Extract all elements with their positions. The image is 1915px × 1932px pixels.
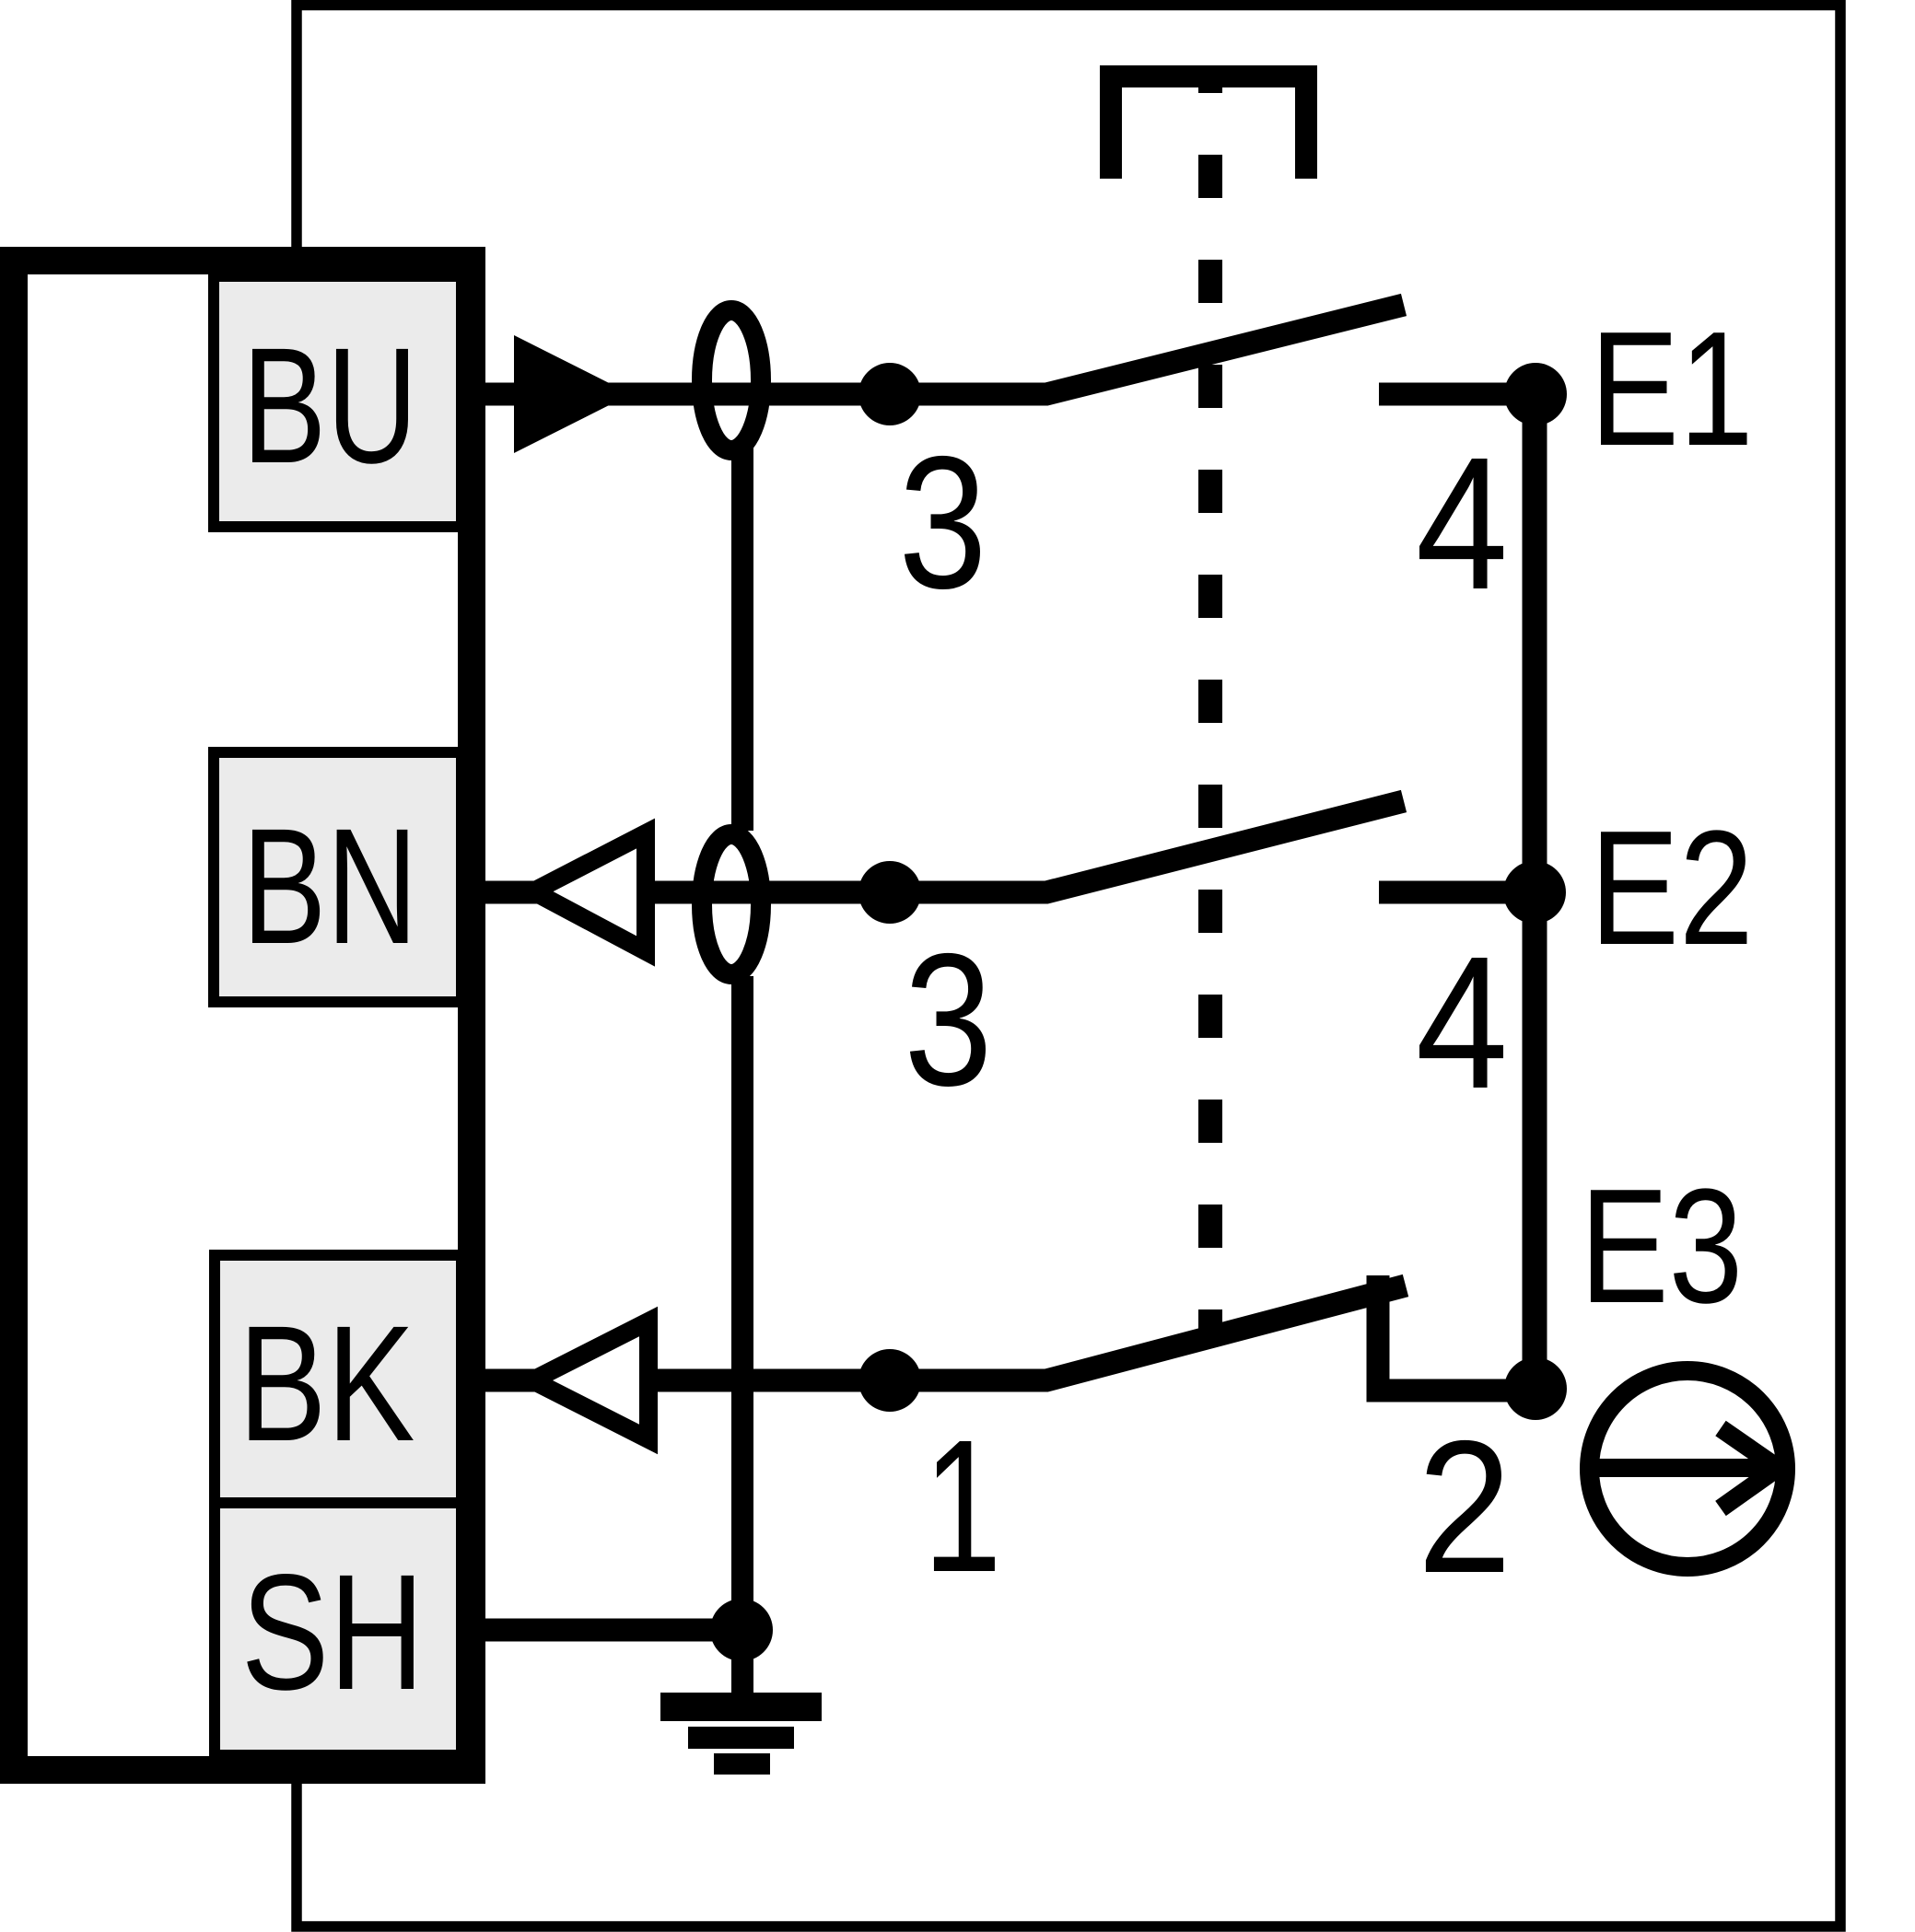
- connector body (device block): [14, 261, 472, 1770]
- mechanical link (dashed line): [1198, 87, 1222, 1334]
- node dot 3 (row 1): [858, 363, 921, 425]
- shield line lower segment (BN loop to ground): [731, 976, 753, 1693]
- terminal box BN: [214, 752, 461, 1002]
- crossing loop on BN wire (shield line hop): [702, 834, 761, 974]
- wire BU row with switch arm E1: [485, 305, 1404, 394]
- svg-text:4: 4: [1416, 418, 1508, 629]
- svg-text:E2: E2: [1590, 797, 1754, 979]
- wire BN row with switch arm E2: [485, 801, 1404, 892]
- crossing loop on BU wire (shield line hop): [702, 310, 761, 450]
- svg-text:4: 4: [1416, 917, 1508, 1128]
- hooked fixed contact E3: [1378, 1275, 1536, 1391]
- fixed contact stub E1: [1379, 383, 1536, 406]
- actuator symbol (circle with arrow): [1590, 1371, 1786, 1567]
- svg-text:SH: SH: [241, 1540, 425, 1724]
- svg-text:3: 3: [898, 417, 987, 628]
- node dot E3: [1504, 1357, 1567, 1420]
- svg-text:BK: BK: [239, 1291, 415, 1475]
- signal arrow (filled, pointing right) on BU wire: [514, 335, 631, 453]
- terminal box BK: [215, 1255, 461, 1503]
- svg-text:BU: BU: [242, 313, 418, 497]
- actuator guide bracket (top): [1100, 65, 1317, 179]
- wire SH row: [485, 1619, 748, 1642]
- wire BK row with switch arm E3: [485, 1286, 1406, 1380]
- ground symbol: [660, 1693, 822, 1775]
- svg-text:2: 2: [1418, 1402, 1512, 1612]
- node dot E2: [1503, 861, 1566, 924]
- svg-text:E1: E1: [1590, 297, 1754, 480]
- svg-text:E3: E3: [1580, 1155, 1743, 1337]
- signal arrow (open, pointing left) on BK wire: [532, 1321, 648, 1439]
- node dot 1 (row 3): [858, 1349, 921, 1412]
- terminal box SH: [215, 1503, 461, 1755]
- node dot E1: [1504, 363, 1567, 425]
- svg-text:1: 1: [923, 1401, 1001, 1612]
- fixed contact stub E2: [1379, 881, 1536, 904]
- node dot SH junction: [710, 1599, 773, 1661]
- terminal box BU: [214, 276, 461, 527]
- svg-text:BN: BN: [242, 794, 418, 978]
- svg-text:3: 3: [904, 914, 992, 1125]
- signal arrow (open, pointing left) on BN wire: [533, 833, 646, 951]
- shield line upper segment (BU loop to BN loop): [731, 447, 753, 831]
- node dot 3 (row 2): [858, 861, 921, 924]
- vertical link wire E1-E2-E3: [1523, 394, 1547, 1389]
